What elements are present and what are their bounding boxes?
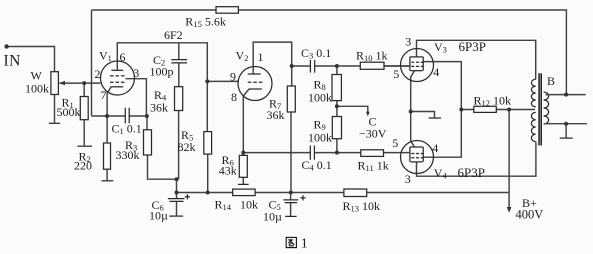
svg-text:1: 1 [301,237,308,252]
svg-text:5: 5 [392,136,398,150]
svg-text:6F2: 6F2 [164,28,183,42]
svg-text:4: 4 [432,141,438,155]
svg-text:1: 1 [258,50,264,64]
svg-text:8: 8 [231,90,237,104]
svg-text:C1 0.1: C1 0.1 [112,122,142,137]
svg-text:C3 0.1: C3 0.1 [301,46,331,61]
svg-text:4: 4 [433,65,439,79]
svg-text:82k: 82k [178,140,196,154]
svg-text:R14 10k: R14 10k [215,198,259,213]
svg-text:100k: 100k [308,91,332,105]
svg-text:R11 1k: R11 1k [358,159,389,174]
svg-text:220: 220 [74,159,92,173]
svg-text:7: 7 [101,88,107,102]
svg-text:10µ: 10µ [263,210,282,224]
svg-text:W: W [31,68,43,82]
svg-text:100k: 100k [308,131,332,145]
svg-text:36k: 36k [150,100,168,114]
svg-text:B: B [547,74,555,88]
svg-text:100p: 100p [150,65,174,79]
svg-text:C4 0.1: C4 0.1 [302,158,332,173]
svg-text:43k: 43k [219,164,237,178]
svg-text:100k: 100k [25,81,49,95]
svg-text:3: 3 [133,66,139,80]
svg-text:R13 10k: R13 10k [343,199,381,214]
svg-text:2: 2 [95,67,101,81]
svg-text:6P3P: 6P3P [459,39,486,54]
svg-text:R12 10k: R12 10k [474,94,512,109]
svg-text:−30V: −30V [359,126,387,140]
svg-text:R10 1k: R10 1k [356,49,388,64]
svg-text:5: 5 [393,67,399,81]
svg-text:330k: 330k [116,148,140,162]
svg-text:3: 3 [405,35,411,49]
svg-text:500k: 500k [57,105,81,119]
svg-text:R15 5.6k: R15 5.6k [185,14,226,29]
svg-text:IN: IN [4,53,21,70]
svg-text:400V: 400V [516,208,544,222]
svg-text:3: 3 [405,172,411,186]
svg-text:9: 9 [230,70,236,84]
svg-text:10µ: 10µ [149,209,168,223]
svg-text:6P3P: 6P3P [458,165,485,180]
svg-text:36k: 36k [267,108,285,122]
svg-text:6: 6 [120,50,126,64]
